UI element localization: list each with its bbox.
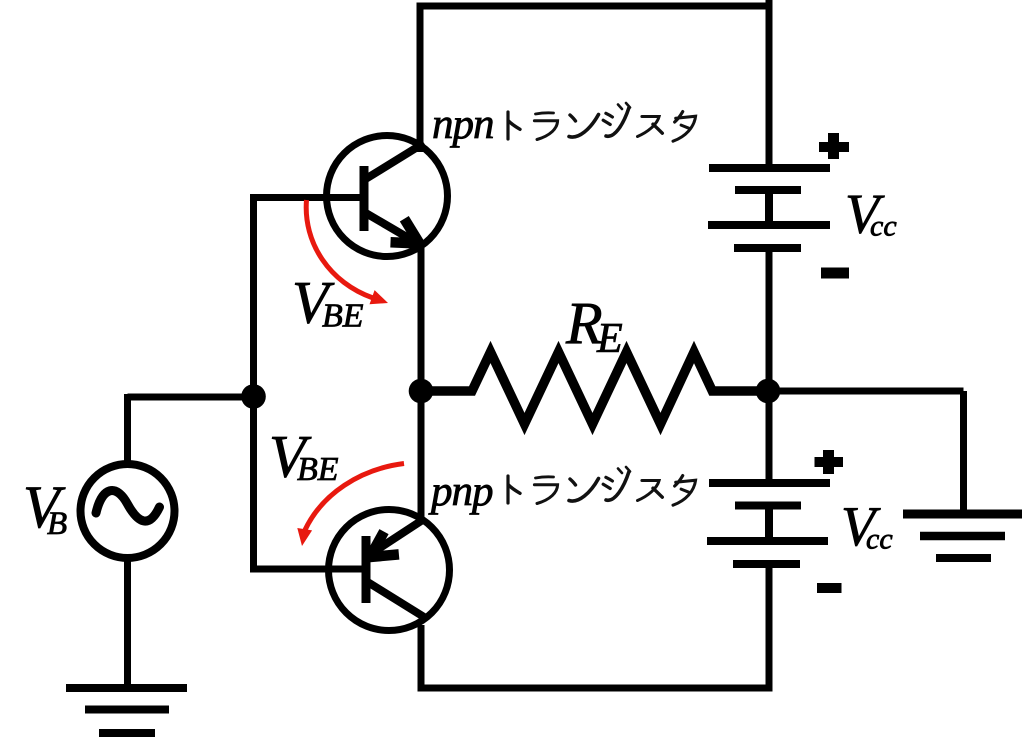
svg-text:cc: cc — [870, 210, 897, 243]
junction dot node E (421,391) — [409, 379, 434, 404]
label katakana "トランジスタ" (pnp row) — [508, 467, 696, 505]
svg-text:B: B — [47, 506, 67, 542]
wire VB top — [124, 394, 131, 464]
minus sign battery V2 — [817, 583, 842, 593]
transistor Q2 pnp — [329, 510, 450, 631]
junction dot base node (253.5,396.5) — [241, 384, 266, 409]
transistor Q1 npn — [327, 136, 448, 257]
wire VB to base node — [128, 394, 254, 401]
svg-text:cc: cc — [866, 523, 893, 556]
wire pnp collector to bottom rail — [418, 625, 425, 688]
wire down to right ground — [960, 391, 967, 512]
svg-text:npn: npn — [432, 101, 494, 148]
wire npn emitter to node — [418, 248, 425, 391]
resistor RE — [421, 352, 768, 424]
wire node to battery V2 + — [766, 391, 773, 483]
red arrow VBE bottom — [297, 464, 404, 547]
wire pnp base — [250, 566, 366, 573]
red arrow VBE top — [306, 200, 388, 304]
svg-text:pnp: pnp — [428, 468, 493, 515]
wire npn collector — [417, 4, 424, 152]
plus sign battery V1 — [819, 133, 849, 159]
wire node to pnp emitter — [418, 391, 425, 521]
minus sign battery V1 — [821, 268, 849, 279]
battery V1 Vcc top — [708, 168, 830, 248]
wire base vertical — [250, 194, 257, 573]
junction dot node E-right (768,391) — [756, 379, 781, 404]
ground right — [903, 514, 1022, 558]
wire node to right ground — [768, 388, 964, 395]
battery V2 Vcc bottom — [707, 483, 830, 564]
ground left — [66, 688, 187, 733]
wire bottom rail — [418, 685, 773, 692]
wire right rail upper (to battery V1 +) — [766, 0, 773, 168]
wire battery V2 minus to bottom rail — [766, 564, 773, 692]
source VB (AC) — [81, 464, 175, 558]
wire top rail — [417, 3, 773, 10]
wire battery V1 minus to node — [766, 248, 773, 391]
svg-text:E: E — [596, 316, 623, 362]
wire VB bottom — [124, 558, 131, 692]
wire npn base — [250, 194, 364, 201]
plus sign battery V2 — [815, 450, 844, 474]
label katakana "トランジスタ" (npn row) — [508, 103, 696, 141]
svg-text:BE: BE — [322, 298, 364, 335]
svg-text:BE: BE — [297, 451, 339, 488]
